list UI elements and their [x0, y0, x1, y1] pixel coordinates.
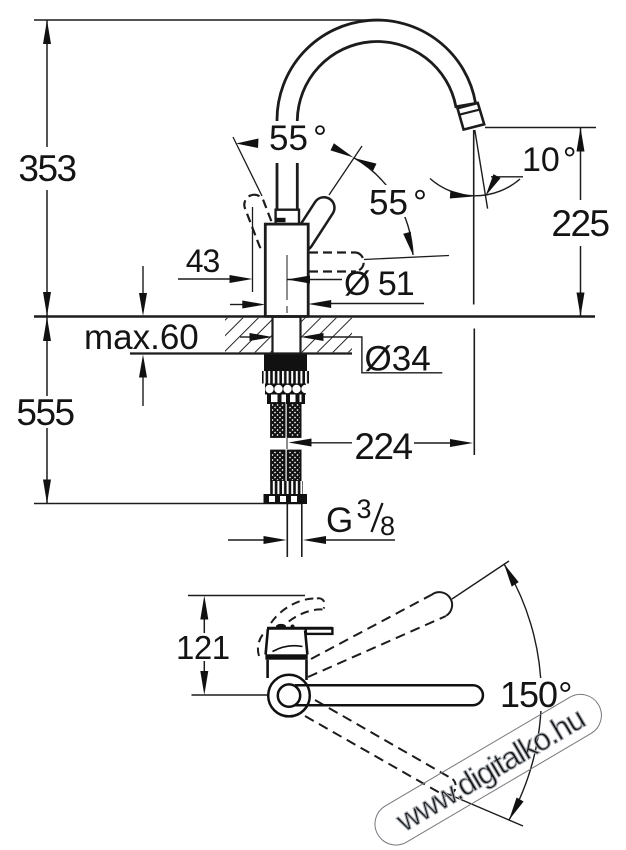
dimension max.60: [142, 266, 144, 294]
dimension 121 line: [203, 617, 205, 633]
dimension 353 line: [46, 20, 48, 147]
svg-text:555: 555: [16, 392, 74, 433]
arrow 353 top: [43, 20, 51, 44]
arrow 55-1 left: [236, 139, 259, 149]
label 55deg first: [264, 119, 333, 163]
lever top line: [267, 627, 333, 630]
150 degree arc: [504, 564, 541, 820]
svg-text:G: G: [326, 501, 353, 540]
base circle: [268, 675, 310, 717]
dashed raised lever: [258, 598, 325, 656]
leader line 10 degrees: [491, 176, 523, 178]
swivel boundary line lower: [441, 791, 523, 826]
extension line from spout tip (225 datum): [485, 127, 596, 129]
deck top line: [34, 315, 595, 317]
arrow 55-2 upper: [354, 158, 377, 171]
arrow 121 bottom: [200, 671, 208, 695]
hub circle: [278, 684, 300, 706]
BOTTOM VIEW: [176, 561, 574, 826]
arrow 150 top: [504, 564, 519, 587]
watermark ribbon outline: [367, 687, 609, 850]
label 150deg: [500, 674, 574, 715]
arrow 150 bottom: [509, 798, 524, 821]
dimension 51 arrows at body: [230, 304, 244, 306]
svg-text:Ø34: Ø34: [365, 340, 431, 379]
handle base edge line: [300, 224, 310, 249]
braided hose lower left: [271, 451, 285, 482]
centerline body: [286, 255, 288, 300]
arrow 121 top: [200, 596, 208, 620]
faucet body: [265, 224, 308, 316]
WATERMARK: [367, 687, 609, 850]
arrow 225 top: [577, 128, 585, 152]
mounting nut dark: [264, 355, 307, 372]
dimension 43: [178, 278, 231, 280]
svg-text:max.60: max.60: [84, 318, 199, 357]
arrow 10 deg leader: [486, 174, 501, 196]
extension line 121 top: [188, 595, 305, 597]
dimension G3/8: [228, 539, 265, 541]
extension line horizontal handle: [364, 256, 449, 260]
lower dashed spout cap: [444, 779, 456, 796]
spout column collar: [276, 210, 299, 224]
connection nuts G3/8: [264, 494, 308, 504]
dimension 34 arrows: [240, 336, 251, 338]
centerline hose gap: [286, 438, 288, 449]
svg-text:43: 43: [186, 243, 220, 279]
collar black mark: [277, 218, 286, 222]
arrow 55-1 right: [331, 143, 354, 157]
arrow 555 top: [43, 317, 51, 341]
svg-text:225: 225: [551, 203, 609, 244]
spout pill front view: [295, 685, 483, 705]
knurled ring: [262, 371, 309, 384]
svg-text:10°: 10°: [522, 141, 576, 179]
svg-text:3: 3: [357, 494, 372, 524]
svg-text:55°: 55°: [369, 184, 427, 223]
countertop deck hatched right: [301, 318, 353, 353]
arrow 555 bottom: [43, 480, 51, 504]
scallop circles row: [265, 384, 310, 395]
svg-text:55°: 55°: [269, 119, 327, 158]
aerator joint line: [459, 109, 480, 114]
dimension 224: [310, 442, 352, 444]
arrow on 10 deg arc pointing right: [450, 191, 473, 199]
extension line 121 bottom (spout axis): [192, 694, 281, 696]
dome arc: [273, 646, 303, 652]
10 degree angle arc: [430, 179, 520, 196]
vertical stream line below tip: [473, 130, 475, 305]
pipe tails: [286, 504, 288, 557]
handle extension line left (dashed handle axis): [233, 137, 262, 196]
deck bottom line: [130, 352, 352, 354]
dashed handle position left: [241, 192, 281, 255]
dimension 555 line: [46, 317, 48, 396]
head sides: [266, 629, 308, 655]
arrow 225 bottom: [577, 293, 585, 317]
crimp collar row: [267, 395, 305, 405]
upper dashed spout position: [308, 594, 446, 677]
lever hinge dots: [276, 624, 286, 629]
countertop deck hatched left: [225, 318, 273, 353]
43 extension line: [252, 207, 254, 292]
swivel boundary line upper: [452, 561, 509, 599]
head band: [265, 654, 307, 659]
second 55 angle arc: [354, 158, 414, 256]
svg-text:8: 8: [380, 511, 395, 541]
extension line bottom (555 datum, hose end): [34, 503, 302, 505]
spout arc tube: [277, 20, 476, 211]
svg-text:121: 121: [176, 629, 230, 666]
svg-text:353: 353: [18, 148, 75, 189]
braided hose upper left: [271, 403, 285, 437]
body walls front view: [268, 660, 307, 680]
solid handle: [288, 193, 338, 255]
shank through deck: [271, 317, 273, 355]
arrow 55-2 lower: [403, 232, 413, 255]
lever blade: [306, 628, 333, 634]
dimension 225 line: [580, 128, 582, 201]
slanted 10 degree line: [475, 130, 488, 209]
lower dashed spout position: [305, 700, 453, 795]
dashed handle position horizontal: [309, 253, 364, 272]
SIDE VIEW: [16, 20, 609, 557]
aerator block at spout tip: [458, 103, 485, 130]
svg-text:224: 224: [354, 426, 412, 467]
svg-text:Ø 51: Ø 51: [344, 265, 414, 303]
arrow 353 bottom: [43, 292, 51, 316]
leader diameter 34: [322, 337, 442, 373]
braided hose upper right: [288, 403, 301, 437]
leader diameter 51: [287, 279, 342, 281]
handle extension line right (solid handle axis): [329, 146, 362, 195]
hose ferrules: [269, 481, 304, 494]
upper dashed spout cap: [433, 592, 453, 616]
extension line top (353 datum): [34, 19, 374, 21]
braided hose lower right: [288, 451, 301, 482]
label 55deg second: [367, 184, 427, 223]
